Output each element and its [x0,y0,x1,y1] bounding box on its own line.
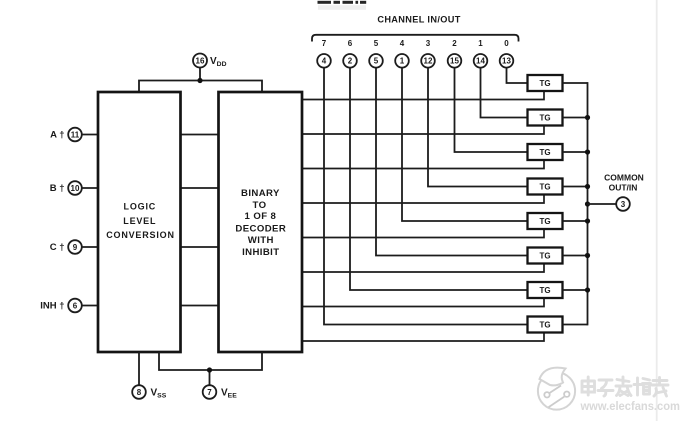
wire TG6 output to common bus [563,255,588,257]
svg-text:INHIBIT: INHIBIT [242,247,279,258]
wire VEE rail from blocks [159,352,262,385]
watermark text dianzifashaoyou [582,377,668,396]
wire channel 7 (pin 4) to TG8 input [324,68,528,325]
svg-text:VDD: VDD [210,56,227,68]
bracket over channel pins [312,35,519,42]
svg-text:3: 3 [621,200,626,209]
wire INH input to logic level block [82,305,98,307]
svg-text:COMMON: COMMON [604,173,644,183]
svg-text:9: 9 [73,243,78,252]
svg-text:5: 5 [374,57,379,66]
transmission gate TG7 [528,282,563,298]
svg-text:0: 0 [504,39,509,48]
svg-text:5: 5 [374,39,379,48]
watermark elecfans logo [538,368,575,410]
wire decoder output 3 to TG4 control [302,195,544,204]
svg-text:VEE: VEE [221,388,237,400]
wire common bus to pin 3 [588,203,617,205]
wire decoder output 4 to TG5 control [302,229,544,238]
junction TG3 output / bus [585,149,590,154]
svg-text:10: 10 [71,184,80,193]
pin circle 11 (A input) [68,128,82,142]
svg-text:VSS: VSS [151,388,167,400]
wire logic level block to decoder (B row) [181,187,219,189]
pin circle 14 (channel 1) [474,54,488,68]
pin circle 10 (B input) [68,181,82,195]
svg-text:CONVERSION: CONVERSION [106,230,175,240]
wire channel 0 (pin 13) to TG1 input [507,68,528,83]
svg-text:12: 12 [424,57,433,66]
junction VDD rail [197,78,202,83]
pin circle 8 (VSS) [132,385,146,399]
svg-text:16: 16 [196,56,205,65]
pin circle 6 (INH input) [68,299,82,313]
pin circle 9 (C input) [68,240,82,254]
wire VSS from logic level block [138,352,140,385]
svg-text:WITH: WITH [248,235,274,246]
svg-text:6: 6 [73,301,78,310]
transmission gate TG1 [528,75,563,91]
wire TG7 output to common bus [563,289,588,291]
svg-text:3: 3 [426,39,431,48]
svg-text:13: 13 [502,57,511,66]
wire TG2 output to common bus [563,117,588,119]
svg-text:14: 14 [476,57,485,66]
block U1b BINARY TO 1 OF 8 DECODER WITH INHIBIT [219,92,303,352]
svg-text:INH †: INH † [40,301,64,312]
svg-text:DECODER: DECODER [235,223,286,234]
svg-text:TO: TO [253,200,267,211]
wire decoder output 6 to TG7 control [302,298,544,307]
transmission gate TG4 [528,179,563,195]
wire channel 1 (pin 14) to TG2 input [481,68,528,118]
wire channel 6 (pin 2) to TG7 input [350,68,528,290]
junction TG5 output / bus [585,218,590,223]
svg-text:LEVEL: LEVEL [123,216,156,226]
wire decoder output 7 to TG8 control [302,333,544,342]
svg-text:TG: TG [539,79,550,88]
svg-text:11: 11 [71,130,80,139]
wire TG8 output to common bus [563,324,588,326]
wire decoder output 2 to TG3 control [302,160,544,169]
junction TG2 output / bus [585,115,590,120]
junction TG6 output / bus [585,253,590,258]
pin circle 1 (channel 4) [395,54,409,68]
svg-text:TG: TG [539,217,550,226]
pin circle 13 (channel 0) [500,54,514,68]
pin circle 7 (VEE) [203,385,217,399]
wire decoder output 5 to TG6 control [302,264,544,273]
svg-text:8: 8 [137,388,142,397]
pin circle 15 (channel 2) [448,54,462,68]
svg-text:C †: C † [50,242,65,253]
pin circle 4 (channel 7) [317,54,331,68]
wire TG4 output to common bus [563,186,588,188]
svg-text:www.elecfans.com: www.elecfans.com [580,399,680,413]
transmission gate TG2 [528,110,563,126]
svg-text:TG: TG [539,251,550,260]
svg-text:A †: A † [50,130,64,141]
scan artifact faint vertical line [656,0,658,421]
svg-text:BINARY: BINARY [241,188,280,199]
transmission gate TG5 [528,213,563,229]
svg-text:1: 1 [400,57,405,66]
svg-text:TG: TG [539,320,550,329]
label COMMON OUT/IN [604,173,644,193]
IC title CD4051B (clipped at top edge) [318,1,367,10]
wire TG1 output to common bus [563,82,588,84]
junction TG4 output / bus [585,184,590,189]
wire decoder output 0 to TG1 control [302,91,544,100]
block U1a LOGIC LEVEL CONVERSION [98,92,181,352]
pin circle 2 (channel 6) [343,54,357,68]
transmission gate TG8 [528,317,563,333]
svg-text:1 OF 8: 1 OF 8 [245,211,277,222]
wire logic level block to decoder (INH row) [181,305,219,307]
svg-text:7: 7 [322,39,327,48]
wire channel 2 (pin 15) to TG3 input [455,68,528,152]
transmission gate TG3 [528,144,563,160]
svg-text:2: 2 [452,39,457,48]
wire A input to logic level block [82,134,98,136]
svg-text:TG: TG [539,148,550,157]
svg-text:TG: TG [539,113,550,122]
wire common bus (vertical) [587,82,589,325]
svg-text:OUT/IN: OUT/IN [609,183,638,193]
svg-text:TG: TG [539,286,550,295]
svg-text:4: 4 [322,57,327,66]
wire logic level block to decoder (C row) [181,246,219,248]
wire channel 3 (pin 12) to TG4 input [428,68,528,187]
wire TG3 output to common bus [563,151,588,153]
wire B input to logic level block [82,187,98,189]
wire channel 5 (pin 5) to TG6 input [376,68,528,256]
junction common tap / bus [585,201,590,206]
wire TG5 output to common bus [563,220,588,222]
pin circle 12 (channel 3) [421,54,435,68]
svg-text:6: 6 [348,39,353,48]
svg-text:2: 2 [348,57,353,66]
svg-text:B †: B † [50,183,65,194]
svg-text:LOGIC: LOGIC [124,202,157,212]
transmission gate TG6 [528,248,563,264]
pin circle 3 (common out/in) [616,197,630,211]
svg-text:CHANNEL IN/OUT: CHANNEL IN/OUT [377,15,460,25]
svg-text:7: 7 [207,388,212,397]
wire C input to logic level block [82,246,98,248]
wire VDD rail to blocks [139,67,262,92]
svg-text:TG: TG [539,182,550,191]
svg-text:4: 4 [400,39,405,48]
pin circle 16 (VDD) [193,54,207,68]
pin circle 5 (channel 5) [369,54,383,68]
wire logic level block to decoder (A row) [181,134,219,136]
junction VEE rail [207,367,212,372]
svg-text:15: 15 [450,57,459,66]
wire decoder output 1 to TG2 control [302,126,544,135]
svg-text:1: 1 [478,39,483,48]
wire channel 4 (pin 1) to TG5 input [402,68,528,221]
junction TG7 output / bus [585,287,590,292]
